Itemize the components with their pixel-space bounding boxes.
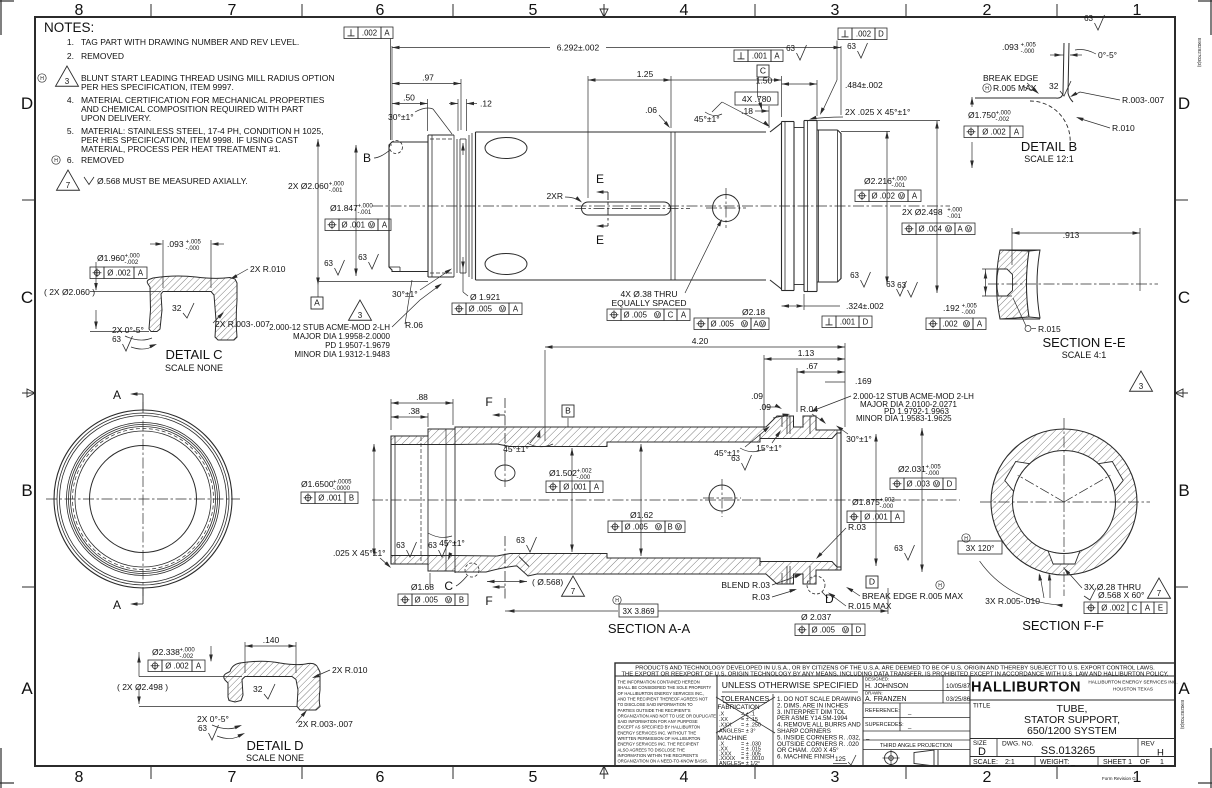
dimension 6.292 [392,43,841,141]
upper view top ellipse hole [485,138,527,159]
triangle 3 right [1130,371,1153,391]
svg-text:REMOVED: REMOVED [81,155,124,165]
dimension .484 [782,80,884,116]
detail C angle labels [112,325,157,351]
dia 1.921 dim and fcf [452,143,522,315]
detail C R003 label [213,312,270,329]
detail D section shape [224,661,320,710]
dim .568 ref [487,577,563,587]
svg-text:A: A [382,220,388,229]
dimension .67 [797,361,845,412]
section A-A right thread verticals [782,416,841,584]
svg-text:.97: .97 [422,73,434,83]
svg-text:ORGANIZATION ON A NEED-TO-KNOW: ORGANIZATION ON A NEED-TO-KNOW BASIS. [618,759,709,764]
svg-text:4.20: 4.20 [692,336,709,346]
svg-text:M: M [899,194,903,200]
svg-text:2XR: 2XR [546,191,563,201]
svg-text:REFERENCE:: REFERENCE: [865,708,900,714]
svg-text:.38: .38 [408,406,420,416]
svg-text:1: 1 [1160,759,1164,766]
svg-text:Ø .002: Ø .002 [1101,603,1124,612]
svg-text:Ø .002: Ø .002 [982,127,1005,136]
perp .002 D fcf top right [820,28,887,115]
datum B box on section [562,405,574,427]
svg-text:H: H [938,583,942,589]
svg-text:A: A [912,191,918,200]
svg-text:2: 2 [983,2,992,19]
svg-text:M: M [656,525,660,531]
svg-text:15°±1°: 15°±1° [756,443,782,453]
svg-text:2.: 2. [67,51,74,61]
upper view outline [389,121,841,292]
note 3 flag [38,66,79,86]
form revision note [1102,776,1136,781]
svg-text:650/1200 SYSTEM: 650/1200 SYSTEM [1027,725,1117,737]
svg-text:A: A [384,28,390,37]
svg-text:SECTION F-F: SECTION F-F [1022,618,1104,633]
svg-text:Ø1.847: Ø1.847 [330,203,358,213]
detail C dims [44,253,161,332]
svg-text:.093: .093 [167,239,184,249]
zone numbers bottom [75,769,1142,786]
svg-text:B: B [21,481,32,500]
section E-E cut line [596,172,608,247]
svg-text:1.: 1. [67,37,74,47]
svg-text:HOUSTON TEXAS: HOUSTON TEXAS [1113,687,1153,692]
svg-text:M: M [655,313,659,319]
reference supercedes rows [863,703,970,740]
svg-text:SCALE 12:1: SCALE 12:1 [1024,154,1074,164]
svg-text:Ø2.338: Ø2.338 [152,647,180,657]
svg-text:TITLE: TITLE [973,703,990,710]
finish 63 right lower [894,544,914,560]
svg-text:D: D [856,625,862,634]
svg-text:E: E [596,172,604,186]
svg-text:DETAIL B: DETAIL B [1021,139,1077,154]
dimension 1.25 [588,69,671,198]
detail B labels [983,14,1165,133]
svg-text:6.: 6. [67,155,74,165]
svg-text:2X Ø2.060: 2X Ø2.060 [288,181,329,191]
svg-text:63: 63 [850,271,859,280]
note 7 [57,170,248,190]
svg-text:3: 3 [65,77,70,86]
svg-text:30°±1°: 30°±1° [846,434,872,444]
svg-text:.06: .06 [645,105,657,115]
svg-text:32: 32 [172,303,182,313]
svg-text:C: C [1178,288,1190,307]
svg-text:03/25/86: 03/25/86 [946,696,971,703]
note 3 text [81,73,334,92]
svg-text:Ø .005: Ø .005 [625,522,649,531]
svg-text:B: B [668,522,673,531]
svg-text:R.010: R.010 [1112,123,1135,133]
dia 1.6500 dim [301,444,376,556]
svg-text:WRITTEN PERMISSION OF HALLIBUR: WRITTEN PERMISSION OF HALLIBURTON [618,736,701,741]
svg-text:+.005: +.005 [1021,43,1037,49]
svg-text:R.015: R.015 [1038,324,1061,334]
4X .38 thru label [607,219,722,321]
svg-text:A: A [113,388,121,402]
detail C indicator circle lower [444,563,479,593]
svg-text:( Ø.568): ( Ø.568) [532,577,563,587]
svg-text:M: M [742,322,746,328]
svg-text:3: 3 [831,769,840,786]
2X .025 chamfer label [809,107,910,120]
svg-text:B: B [349,493,354,502]
svg-text:SECTION E-E: SECTION E-E [1042,335,1125,350]
finish 63 marks lower left [396,536,536,557]
notes heading [44,20,94,35]
svg-text:7: 7 [228,769,237,786]
zone numbers top [75,2,1142,19]
section A-A bottom wall hatched [391,554,841,585]
dia 1.875 dim [847,434,904,566]
svg-text:ALSO AGREES TO DISCLOSE THE: ALSO AGREES TO DISCLOSE THE [618,747,686,752]
svg-text:.002: .002 [362,28,377,37]
svg-text:Ø.568 X 60°: Ø.568 X 60° [1098,590,1144,600]
section F-F title [1022,618,1104,633]
svg-text:M: M [369,223,373,229]
left thread flag and spec [269,284,442,360]
svg-text:C: C [444,579,453,593]
upper view bottom ellipse hole [485,254,527,275]
svg-text:R.015 MAX: R.015 MAX [848,601,892,611]
svg-text:DETAIL D: DETAIL D [246,738,303,753]
svg-text:M: M [966,227,970,233]
45 label lower mid [428,533,465,560]
svg-text:7: 7 [1157,589,1162,598]
svg-text:63: 63 [358,253,367,262]
svg-text:THE INFORMATION CONTAINED HERE: THE INFORMATION CONTAINED HEREON [618,680,700,685]
dia 1.847 dim [330,145,373,276]
svg-text:HALLIBURTON ENERGY SERVICES IN: HALLIBURTON ENERGY SERVICES INC. [1088,680,1177,685]
svg-text:-.000: -.000 [186,246,200,252]
dimension 1.13 [764,348,845,430]
svg-text:8: 8 [75,769,84,786]
svg-text:10/05/87: 10/05/87 [946,683,971,690]
svg-text:EXCEPT AS SPECIFIED BY HALLIBU: EXCEPT AS SPECIFIED BY HALLIBURTON [618,725,701,730]
svg-text:A: A [113,598,121,612]
svg-text:E: E [1158,603,1163,612]
svg-text:R.06: R.06 [405,320,423,330]
svg-text:-.002: -.002 [180,654,194,660]
svg-text:A: A [895,512,901,521]
dimension .09 pair [751,391,790,418]
dia 2.18 label [694,307,769,330]
45 deg chamfer label upper [694,102,770,127]
svg-text:REV: REV [1141,741,1155,748]
svg-text:5.: 5. [67,126,74,136]
perp .001 A fcf and datum C [734,44,807,110]
svg-text:SCALE:: SCALE: [973,759,998,766]
svg-text:Ø.568 MUST BE MEASURED AXIALLY: Ø.568 MUST BE MEASURED AXIALLY. [97,176,248,186]
svg-text:.913: .913 [1063,230,1080,240]
svg-text:Ø .002: Ø .002 [872,191,895,200]
svg-text:4X .780: 4X .780 [742,94,772,104]
svg-text:63: 63 [516,536,525,545]
detail C section shape [147,276,237,340]
svg-text:PER HES SPECIFICATION, ITEM 99: PER HES SPECIFICATION, ITEM 9997. [81,82,234,92]
svg-text:D: D [863,317,869,326]
svg-text:M: M [760,322,764,328]
dimension 1.50 [671,76,782,118]
svg-text:1.25: 1.25 [637,69,654,79]
section A-A cut arrows [113,388,143,612]
svg-text:MATERIAL, PROCESS PER HEAT TRE: MATERIAL, PROCESS PER HEAT TREATMENT #1. [81,144,281,154]
svg-text:MINOR DIA 1.9312-1.9483: MINOR DIA 1.9312-1.9483 [294,350,390,359]
dimension .50 [392,93,428,132]
detail B .093 dim [1002,42,1082,57]
svg-text:63: 63 [324,259,333,268]
svg-text:Ø .001: Ø .001 [864,512,887,521]
svg-text:SCALE 4:1: SCALE 4:1 [1062,350,1107,360]
2X dia 2.060 dim [288,139,428,297]
dia 1.502 dim [546,448,603,552]
detail C 32 finish [172,303,194,318]
svg-text:2X 0°-5°: 2X 0°-5° [197,714,229,724]
svg-text:Ø .005: Ø .005 [469,304,493,313]
svg-text:R.003-.007: R.003-.007 [1122,95,1164,105]
svg-text:63: 63 [894,544,903,553]
svg-text:.484±.002: .484±.002 [845,80,883,90]
svg-text:3X 3.869: 3X 3.869 [622,607,655,616]
svg-text:A: A [314,298,320,308]
blend labels [721,522,866,602]
svg-text:+.0005: +.0005 [333,480,352,486]
svg-text:A: A [1178,679,1190,698]
svg-text:MAJOR DIA 1.9958-2.0000: MAJOR DIA 1.9958-2.0000 [293,332,390,341]
dia 1.62 dim [608,444,685,556]
svg-text:+.000: +.000 [125,254,141,260]
svg-text:-.001: -.001 [892,183,906,189]
section E-E shape [997,250,1041,319]
detail C R010 label [230,264,286,279]
angle labels lower view [503,426,872,471]
finish 63 right pair upper view [850,271,917,297]
svg-text:2:1: 2:1 [1005,759,1015,766]
third angle projection [863,743,970,766]
svg-text:THIRD ANGLE PROJECTION: THIRD ANGLE PROJECTION [880,743,952,749]
svg-text:.025 X 45°±1°: .025 X 45°±1° [333,548,386,558]
svg-text:7: 7 [571,587,576,596]
svg-text:63: 63 [198,724,207,733]
svg-text:BREAK EDGE: BREAK EDGE [983,73,1039,83]
svg-text:M: M [500,307,504,313]
H circle and 3X 3.869 [505,588,888,617]
svg-text:Ø1.6500: Ø1.6500 [301,479,334,489]
svg-text:4: 4 [680,769,689,786]
svg-text:_: _ [907,709,912,715]
svg-text:BREAK EDGE R.005 MAX: BREAK EDGE R.005 MAX [862,591,963,601]
svg-text:5: 5 [529,2,538,19]
svg-text:30°±1°: 30°±1° [392,289,418,299]
svg-text:.093: .093 [1002,42,1019,52]
svg-text:D: D [869,577,875,587]
svg-text:0°-5°: 0°-5° [1098,50,1117,60]
svg-text:-.001: -.001 [358,210,372,216]
dia 2.031 dim [890,428,956,572]
svg-text:Ø .005: Ø .005 [624,310,648,319]
svg-text:D: D [878,29,884,38]
section F-F radial centerlines [980,418,1150,596]
triangle 7 lower [562,576,585,596]
detail D angle labels [197,714,245,740]
svg-text:+.002: +.002 [880,498,896,504]
svg-text:32: 32 [253,684,263,694]
proprietary legal text [618,680,717,764]
section E-E inner dim arrows [982,269,1012,296]
svg-text:2: 2 [983,769,992,786]
svg-text:Ø 1.921: Ø 1.921 [470,292,501,302]
svg-text:Ø .003: Ø .003 [907,479,930,488]
svg-text:A: A [21,679,33,698]
svg-text:B: B [363,151,371,165]
svg-text:ENERGY SERVICES INC. WITHOUT T: ENERGY SERVICES INC. WITHOUT THE [618,730,697,735]
svg-text:3: 3 [358,311,363,320]
dimension .06 [645,105,670,128]
svg-text:TOLERANCES: TOLERANCES [721,694,770,703]
svg-text:A: A [138,268,144,277]
R.015 label EE [1013,298,1061,334]
svg-text:PARTIES OUTSIDE THE RECIPIENT': PARTIES OUTSIDE THE RECIPIENT'S [618,708,691,713]
svg-text:A: A [196,661,202,670]
svg-text:63: 63 [786,44,795,53]
upper view hole circle [706,188,746,228]
svg-text:7: 7 [66,181,71,190]
svg-text:Ø .005: Ø .005 [711,319,735,328]
svg-text:.88: .88 [416,392,428,402]
svg-text:DETAIL C: DETAIL C [165,347,222,362]
svg-text:E: E [596,233,604,247]
svg-text:_: _ [907,723,912,729]
svg-text:6: 6 [376,769,385,786]
svg-text:DESIGNED:: DESIGNED: [865,677,889,682]
svg-text:H: H [615,598,619,604]
svg-text:A: A [754,319,760,328]
note 6 [52,155,124,165]
section A-A bottom chamfer line [519,557,529,567]
detail B indicator circle [363,141,403,166]
svg-text:F: F [485,395,492,409]
svg-text:Ø1.502: Ø1.502 [549,468,577,478]
svg-text:.18: .18 [741,106,753,116]
svg-text:.12: .12 [480,99,492,109]
svg-text:125: 125 [835,756,846,763]
svg-text:2X .025 X 45°±1°: 2X .025 X 45°±1° [845,107,910,117]
dimension .18 [741,106,769,128]
svg-text:Ø .001: Ø .001 [563,482,586,491]
section A-A hole circle right [703,479,741,517]
detail D dims [117,647,297,707]
svg-text:2.000-12 STUB ACME-MOD 2-LH: 2.000-12 STUB ACME-MOD 2-LH [269,323,390,332]
note 4 [67,95,325,123]
svg-text:63: 63 [897,281,906,290]
title box [970,676,1175,766]
svg-text:SS.013265: SS.013265 [1041,745,1095,757]
svg-text:6.292±.002: 6.292±.002 [557,43,600,53]
svg-text:Ø .001: Ø .001 [342,220,365,229]
svg-text:UNLESS OTHERWISE SPECIFIED: UNLESS OTHERWISE SPECIFIED [722,680,858,690]
section A-A title [608,621,691,636]
svg-text:.50: .50 [403,93,415,103]
svg-text:SAID INFORMATION FOR ANY PURPO: SAID INFORMATION FOR ANY PURPOSE [618,719,698,724]
svg-text:H. JOHNSON: H. JOHNSON [865,683,908,690]
detail D R003 label [296,710,353,729]
svg-text:M: M [676,525,680,531]
detail D 32 finish [253,684,275,699]
size dwg rev row [970,739,1175,759]
zone letters right [1178,94,1190,698]
uos numbered list [777,696,861,765]
svg-text:7: 7 [228,2,237,19]
dia 2.037 dim [795,612,865,636]
svg-text:REMOVED: REMOVED [81,51,124,61]
svg-text:Ø .002: Ø .002 [165,661,188,670]
svg-text:+.000: +.000 [358,204,374,210]
svg-text:R.005 MAX: R.005 MAX [993,83,1037,93]
dia 1.750 dim detail B related [964,97,1023,168]
perp .002 A fcf top left [344,27,393,140]
dimension 4.20 [545,336,845,441]
dimension .169 [825,376,872,386]
svg-text:= ± 3°: = ± 3° [741,728,756,734]
svg-text:OF: OF [1140,759,1150,766]
svg-text:.001: .001 [752,51,767,60]
svg-text:-.000: -.000 [1021,49,1035,55]
svg-text:Ø1.875: Ø1.875 [852,497,880,507]
svg-text:.002: .002 [856,29,871,38]
detail D indicator circle [807,576,834,606]
svg-text:Ø .004: Ø .004 [919,224,943,233]
svg-text:M: M [934,482,938,488]
svg-text:-.000: -.000 [962,310,976,316]
svg-text:1: 1 [1133,2,1142,19]
svg-text:SUPERCEDES:: SUPERCEDES: [865,722,904,728]
halliburton logo [971,680,1178,696]
svg-text:.192: .192 [943,303,960,313]
svg-text:C: C [1132,603,1138,612]
section F-F ring [991,429,1137,575]
right thread spec text [810,392,974,423]
svg-text:PD 1.9507-1.9679: PD 1.9507-1.9679 [325,341,390,350]
svg-text:Ø2.216: Ø2.216 [864,176,892,186]
svg-text:OF HALLIBURTON ENERGY SERVICES: OF HALLIBURTON ENERGY SERVICES INC., [618,691,705,696]
detail B profile [975,43,1073,145]
svg-text:3X 120°: 3X 120° [966,544,995,553]
svg-text:-.0000: -.0000 [333,486,351,492]
svg-text:3: 3 [831,2,840,19]
svg-text:D: D [947,479,953,488]
svg-text:A: A [774,51,780,60]
end view centerlines [46,402,240,596]
end view circles [54,410,232,588]
detail D 2.338 arrow [209,646,213,662]
svg-text:30°±1°: 30°±1° [388,112,414,122]
svg-text:( 2X Ø2.498 ): ( 2X Ø2.498 ) [117,682,168,692]
svg-text:A: A [513,304,519,313]
detail C title [165,347,223,373]
svg-text:2X 0°-5°: 2X 0°-5° [112,325,144,335]
svg-text:1.13: 1.13 [798,348,815,358]
svg-text:MINOR DIA 1.9583-1.9625: MINOR DIA 1.9583-1.9625 [856,414,952,423]
3X R label [985,573,1051,606]
svg-text:M: M [964,322,968,328]
svg-text:E90292703(3): E90292703(3) [1180,700,1185,730]
svg-text:R.03: R.03 [752,592,770,602]
zone letters left [21,94,33,698]
designed drawn rows [863,676,971,703]
